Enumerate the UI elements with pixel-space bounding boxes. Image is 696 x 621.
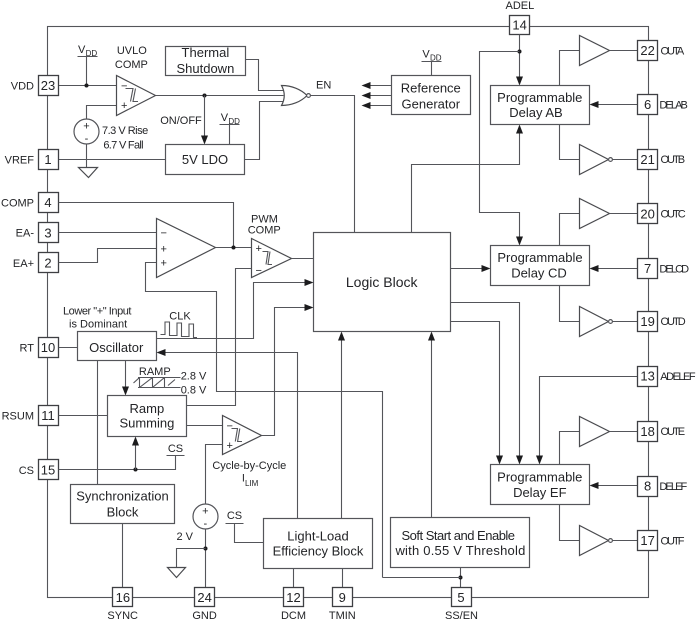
svg-text:5V LDO: 5V LDO [182,152,228,167]
block 5V LDO [166,145,245,175]
svg-text:11: 11 [41,408,55,423]
wire delay AB to OUTA buffer [560,51,580,86]
svg-text:LIM: LIM [245,479,259,488]
wire delay CD to OUTD inverter [560,286,580,322]
wire PWM comparator minus from ramp summing [187,269,252,406]
svg-text:Soft Start and Enable: Soft Start and Enable [401,528,514,543]
wire soft start to error amp bottom plus [146,263,383,578]
pin 21 OUTB [638,150,685,170]
pin 20 OUTC [638,204,686,224]
pin 17 OUTF [638,531,685,551]
wire light-load to oscillator arrow [164,353,298,519]
wire 5V LDO output to NOR gate bottom input [245,102,284,160]
svg-text:Thermal: Thermal [182,45,230,60]
voltage source 2V [193,504,218,530]
pin 6 DELAB [638,95,688,115]
pin 15 CS [19,460,59,480]
svg-text:EN: EN [316,80,331,92]
svg-text:−: − [161,228,167,240]
pin 2 EA+ [13,253,59,273]
wire OUTC buffer to pin 20 [610,213,638,215]
svg-text:-: - [85,133,89,145]
svg-text:COMP: COMP [1,198,34,210]
svg-text:12: 12 [286,590,300,605]
svg-text:OUTE: OUTE [661,426,685,438]
svg-text:+: + [161,258,167,270]
wire Logic Block to Programmable Delay EF arrow 2 [451,322,500,458]
wire 2V source to cycle-by-cycle plus [206,445,223,505]
pin 5 SS/EN [445,588,478,621]
svg-text:5: 5 [457,590,464,605]
svg-text:Ramp: Ramp [130,401,165,416]
wire EA+ to error amp middle plus [59,249,157,263]
svg-text:DD: DD [430,53,442,62]
wire Logic Block to Programmable Delay EF arrow 1 [451,303,520,458]
svg-text:−: − [227,421,233,433]
pin 10 RT [20,338,59,358]
wire delay AB to OUTB inverter [560,125,580,160]
wire UVLO plus input from 7.3V source [87,106,117,120]
svg-text:-: - [203,518,207,530]
svg-text:−: − [121,81,127,93]
pin 12 DCM [281,588,306,621]
wire delay EF to OUTE buffer [560,432,580,465]
wire UVLO output to NOR gate middle input [156,95,284,97]
svg-text:EA+: EA+ [13,258,34,270]
wire OUTA buffer to pin 22 [610,50,638,52]
svg-text:10: 10 [41,340,55,355]
svg-text:Generator: Generator [402,97,461,112]
op-amp error amplifier EA [157,219,216,278]
wire SS/EN junction left branch [383,577,461,579]
wire ADELEF pin to Programmable Delay EF arrow [540,377,638,458]
wire junction to ground symbol [177,549,206,568]
svg-text:Programmable: Programmable [497,90,582,105]
pin 1 VREF [5,150,59,170]
wire delay CD to OUTC buffer [560,214,580,246]
block Oscillator [78,332,157,361]
op-amp UVLO comparator [117,76,156,116]
pin 7 DELCD [638,259,690,279]
node VDD junction [85,84,89,88]
pin 23 VDD [11,76,59,96]
svg-text:DELEF: DELEF [659,481,687,493]
svg-text:RAMP: RAMP [139,366,171,378]
svg-text:20: 20 [640,206,654,221]
inverter OUTF [580,526,613,556]
svg-text:OUTF: OUTF [661,535,685,547]
pin 3 EA- [16,223,59,243]
wire COMP pin to error amp output node [59,203,234,248]
wire light-load to DCM pin [293,569,295,588]
ground below source [79,168,98,178]
wire DELAB pin arrow into delay AB [597,104,638,106]
wire oscillator to ramp summing RAMP arrow [125,361,127,388]
V_DD power symbol above 5V LDO [220,112,241,145]
waveform ramp sawtooth [134,378,181,388]
svg-text:ON/OFF: ON/OFF [160,115,202,127]
svg-text:UVLO: UVLO [117,45,147,57]
svg-text:Programmable: Programmable [497,470,582,485]
svg-text:+: + [83,121,89,133]
svg-text:2 V: 2 V [176,531,193,543]
svg-text:Block: Block [107,504,139,519]
svg-text:COMP: COMP [248,225,281,237]
block Programmable Delay CD [491,246,590,286]
svg-text:SS/EN: SS/EN [445,610,478,621]
wire 2V source to GND pin [205,530,207,588]
svg-text:CS: CS [168,443,183,455]
pin 11 RSUM [2,406,59,426]
svg-text:Cycle-by-Cycle: Cycle-by-Cycle [212,460,286,472]
block Programmable Delay AB [491,86,590,125]
svg-text:CS: CS [227,510,242,522]
node SS/EN junction [459,576,463,580]
svg-text:Shutdown: Shutdown [176,61,234,76]
svg-text:Logic Block: Logic Block [346,274,419,290]
svg-text:15: 15 [41,462,55,477]
wire CS arrow into ramp summing [135,444,137,470]
buffer OUTC [580,199,610,229]
svg-text:OUTA: OUTA [661,45,685,57]
svg-text:9: 9 [339,590,346,605]
block Synchronization Block [71,485,175,524]
block Logic Block [314,233,451,332]
block Soft Start and Enable [391,518,530,568]
svg-text:DCM: DCM [281,610,306,621]
svg-text:22: 22 [640,43,654,58]
svg-text:Delay CD: Delay CD [511,266,567,281]
svg-text:with 0.55 V Threshold: with 0.55 V Threshold [394,543,525,558]
wire RSUM to ramp summing [59,415,108,417]
svg-text:GND: GND [192,610,217,621]
buffer OUTE [580,417,610,447]
wire Thermal Shutdown to NOR gate top input [246,60,284,91]
wire soft start to Logic Block arrow [431,340,433,518]
svg-text:+: + [121,100,127,112]
wire OUTE buffer to pin 18 [610,431,638,433]
node error amp output junction [232,246,236,250]
wire DELCD pin arrow into delay CD [598,268,638,270]
svg-text:Delay AB: Delay AB [509,105,562,120]
pin 24 GND [192,588,217,621]
svg-text:DD: DD [228,117,240,126]
VDD power symbol V_DD [78,44,98,86]
node CS junction [134,468,138,472]
svg-text:Efficiency Block: Efficiency Block [273,543,364,558]
svg-text:SYNC: SYNC [107,610,138,621]
wire DELEF pin arrow into delay EF [597,485,638,487]
wire light-load to TMIN pin [342,569,344,588]
wire OUTB inverter to pin 21 [613,159,638,161]
pin 14 ADEL [510,16,530,35]
wire reference generator output arrows [362,82,392,109]
inverter OUTD [580,307,613,337]
svg-text:ADEL: ADEL [506,0,535,12]
pin 8 DELEF [638,477,688,497]
svg-text:RSUM: RSUM [2,411,34,423]
svg-text:DD: DD [86,49,98,58]
wire error amp output to PWM comparator plus [216,247,252,249]
svg-text:Light-Load: Light-Load [287,528,348,543]
buffer OUTA [580,36,610,66]
wire cycle-by-cycle output to Logic Block [262,308,306,436]
wire VREF to 5V LDO [59,159,166,161]
svg-text:−: − [256,265,262,277]
pin 9 TMIN [329,588,356,621]
svg-text:Oscillator: Oscillator [89,340,144,355]
svg-text:23: 23 [41,78,55,93]
inverter OUTB [580,145,613,175]
wire ADEL branch to Programmable Delay CD arrow [480,52,520,238]
svg-text:4: 4 [44,195,51,210]
V_DD power symbol above reference generator [422,48,442,75]
svg-text:is Dominant: is Dominant [69,319,127,331]
svg-text:OUTC: OUTC [661,209,686,221]
node ON/OFF junction [203,94,207,98]
wire OUTD inverter to pin 19 [613,321,638,323]
gate NOR (EN) [282,86,311,106]
svg-text:13: 13 [640,369,654,384]
wire EN to Logic Block top [311,96,355,233]
wire CS pin to CS bar [59,456,185,470]
svg-text:3: 3 [44,225,51,240]
svg-text:19: 19 [640,314,654,329]
wire CLK oscillator to Logic Block [157,283,306,339]
block Ramp Summing [108,396,187,437]
block Reference Generator [392,76,471,115]
wire light-load to Logic Block arrow [341,340,343,519]
svg-text:2.8 V: 2.8 V [181,371,207,383]
svg-text:CS: CS [19,465,34,477]
svg-text:+: + [256,243,262,255]
svg-text:1: 1 [44,152,51,167]
svg-text:6.7 V Fall: 6.7 V Fall [103,139,143,151]
svg-text:Summing: Summing [119,416,174,431]
pin 18 OUTE [638,422,685,442]
svg-text:Programmable: Programmable [497,250,582,265]
svg-text:18: 18 [640,424,654,439]
svg-text:6: 6 [644,97,651,112]
svg-text:+: + [161,243,167,255]
svg-text:21: 21 [640,152,654,167]
svg-text:2: 2 [44,256,51,271]
voltage source 7.3V rise / 6.7V fall [74,119,99,168]
svg-text:+: + [227,440,233,452]
svg-text:OUTD: OUTD [661,316,686,328]
wire oscillator to synchronization block [97,361,99,485]
waveform clock pulses [161,322,198,338]
svg-text:7.3 V Rise: 7.3 V Rise [102,125,148,137]
wire synchronization block to SYNC pin [122,524,124,588]
svg-text:EA-: EA- [16,228,35,240]
svg-text:16: 16 [116,590,130,605]
outer frame [48,27,649,598]
svg-text:24: 24 [197,590,211,605]
svg-text:Synchronization: Synchronization [76,489,169,504]
svg-text:RT: RT [20,342,35,354]
svg-text:COMP: COMP [115,59,148,71]
wire ADEL pin to Programmable Delay AB arrow [519,35,521,79]
svg-text:CLK: CLK [169,311,191,323]
wire soft start to SS/EN pin [460,568,462,588]
node ADEL junction [518,50,522,54]
wire ramp summing to cycle-by-cycle minus [187,425,223,427]
svg-text:VDD: VDD [11,81,34,93]
ground [168,568,186,578]
wire EA- to error amp [59,232,157,234]
svg-text:ADELEF: ADELEF [660,371,696,383]
svg-text:17: 17 [640,533,654,548]
wire RT to oscillator [59,347,78,349]
block Programmable Delay EF [491,465,590,505]
wire CS bar to light-load block [226,524,264,543]
svg-text:VREF: VREF [5,154,35,166]
pin 19 OUTD [638,312,686,332]
pin 13 ADELEF [638,367,696,387]
svg-text:0.8 V: 0.8 V [181,385,207,397]
pin 22 OUTA [638,41,685,61]
block Light-Load Efficiency Block [264,519,373,569]
svg-text:14: 14 [512,17,526,32]
op-amp cycle-by-cycle comparator [223,416,262,455]
block Thermal Shutdown [166,45,246,76]
svg-text:DELCD: DELCD [659,264,689,276]
wire delay EF to OUTF inverter [560,505,580,541]
wire ON/OFF arrow into 5V LDO [204,96,206,138]
svg-text:7: 7 [644,261,651,276]
svg-text:OUTB: OUTB [661,154,685,166]
svg-text:DELAB: DELAB [659,100,687,112]
wire PWM comparator output to Logic Block [292,258,314,260]
wire Logic Block to Programmable Delay CD arrow [451,268,484,270]
pin 16 SYNC [107,588,138,621]
svg-text:8: 8 [644,479,651,494]
svg-text:Reference: Reference [401,81,461,96]
wire VDD to UVLO [59,85,117,87]
node ground junction [204,547,208,551]
svg-text:+: + [202,506,208,518]
svg-text:TMIN: TMIN [329,610,356,621]
op-amp PWM comparator [252,239,292,278]
wire OUTF inverter to pin 17 [613,540,638,542]
wire Logic Block to Programmable Delay AB arrow [412,133,520,233]
svg-text:Lower "+" Input: Lower "+" Input [63,306,131,318]
svg-text:Delay EF: Delay EF [513,485,567,500]
pin 4 COMP [1,193,59,213]
